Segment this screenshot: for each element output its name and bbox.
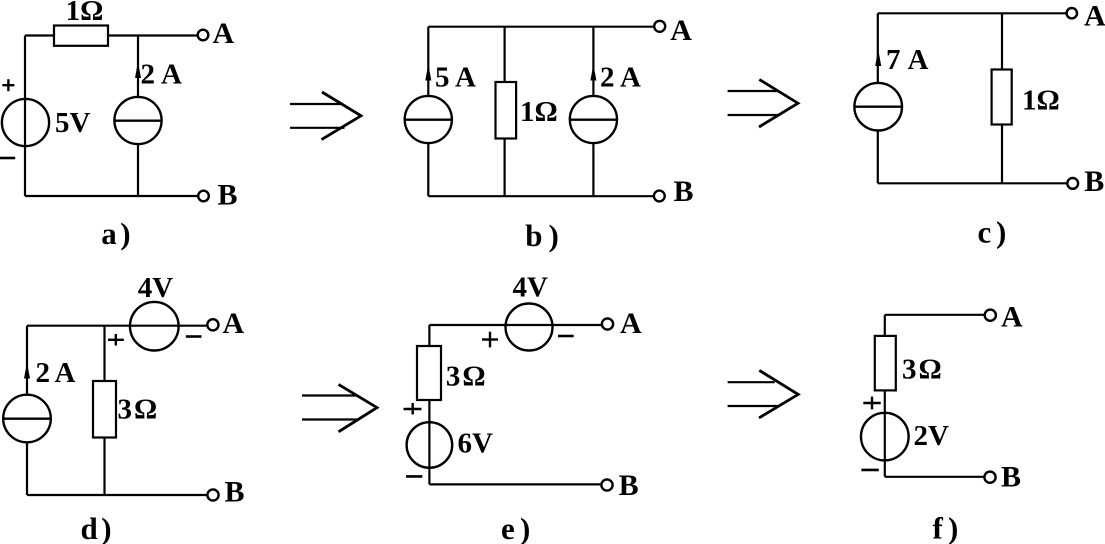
svg-text:B: B — [674, 175, 694, 208]
wire: circuit c left branch lower — [877, 130, 879, 183]
svg-text:d): d) — [81, 511, 112, 544]
voltage source 2V (f) circle — [861, 413, 909, 461]
wire: circuit a middle branch upper — [137, 36, 139, 98]
svg-text:1Ω: 1Ω — [1022, 84, 1060, 116]
svg-text:3Ω: 3Ω — [118, 394, 158, 426]
svg-text:B: B — [1084, 165, 1104, 198]
wire: circuit f bottom horizontal — [885, 476, 985, 478]
wire: circuit b top horizontal — [428, 26, 654, 28]
current source 2A (a) circle with bar — [114, 97, 161, 144]
svg-text:5A: 5A — [435, 61, 476, 93]
polarity − of 6V (e) — [406, 475, 422, 478]
terminal B (a) — [198, 191, 209, 202]
resistor 1Ω (c) body — [992, 70, 1012, 125]
current source 2A (b) circle with bar — [570, 96, 617, 143]
svg-text:B: B — [218, 178, 238, 211]
svg-text:A: A — [223, 307, 245, 340]
resistor 3Ω (d) body — [93, 381, 116, 438]
resistor 3Ω (f) body — [875, 336, 896, 391]
svg-text:A: A — [620, 307, 642, 340]
svg-text:A: A — [1001, 301, 1023, 334]
wire: circuit c top horizontal — [878, 12, 1067, 14]
wire: circuit e top horizontal — [429, 324, 602, 326]
svg-text:1Ω: 1Ω — [520, 96, 558, 128]
svg-text:3Ω: 3Ω — [446, 360, 486, 392]
current source 7A (c) circle with bar — [854, 83, 902, 131]
wire: circuit b left branch lower — [427, 143, 429, 196]
svg-text:B: B — [1001, 460, 1021, 493]
terminal A (c) — [1067, 8, 1077, 18]
svg-text:5V: 5V — [55, 107, 91, 139]
wire: circuit b bottom horizontal — [428, 195, 654, 197]
svg-text:7A: 7A — [886, 44, 929, 76]
svg-text:4V: 4V — [513, 272, 549, 304]
transform arrow between a and b — [290, 92, 361, 140]
terminal B (d) — [207, 489, 218, 500]
svg-text:1Ω: 1Ω — [66, 0, 104, 27]
polarity − of 5V (a) — [0, 157, 15, 160]
terminal A (a) — [198, 30, 209, 41]
current arrow of 7A (c) — [875, 49, 881, 66]
resistor 3Ω (e) body — [417, 346, 441, 400]
svg-text:a): a) — [101, 216, 130, 251]
wire: circuit e left branch vertical — [428, 325, 430, 484]
polarity + of 2V (f) — [863, 397, 880, 410]
svg-text:B: B — [225, 476, 245, 509]
svg-text:A: A — [670, 14, 692, 47]
transform arrow between b and c — [728, 80, 798, 128]
wire: circuit c bottom horizontal — [878, 182, 1068, 184]
wire: circuit d left branch lower — [26, 442, 28, 495]
polarity − of 2V (f) — [861, 469, 878, 472]
wire: circuit b right branch upper — [592, 27, 594, 97]
svg-text:b): b) — [525, 218, 559, 253]
polarity − of 4V (d) — [186, 335, 202, 338]
current source 5A (b) circle with bar — [405, 96, 452, 143]
transform arrow between e and f — [728, 370, 799, 418]
svg-text:2V: 2V — [914, 420, 950, 452]
terminal B (b) — [654, 191, 665, 202]
terminal A (e) — [602, 318, 613, 329]
voltage source 6V (e) circle — [407, 422, 453, 468]
polarity + of 4V (d) — [108, 334, 124, 346]
wire: circuit b middle branch — [504, 27, 506, 197]
terminal B (c) — [1067, 178, 1078, 189]
wire: circuit a top horizontal — [25, 34, 198, 36]
svg-text:f): f) — [933, 511, 959, 544]
svg-text:3Ω: 3Ω — [902, 354, 942, 386]
polarity + of 5V (a) — [2, 79, 14, 91]
svg-text:A: A — [1084, 0, 1105, 32]
polarity + of 6V (e) — [404, 403, 422, 415]
resistor 1Ω (b) body — [496, 82, 517, 139]
svg-text:c): c) — [978, 215, 1007, 250]
current arrow of 2A (b) — [590, 64, 596, 81]
terminal A (f) — [985, 310, 996, 321]
current arrow of 2A (a) — [135, 62, 141, 79]
current source 2A (d) circle with bar — [3, 395, 51, 443]
wire: circuit d middle branch — [103, 326, 105, 495]
wire: circuit e bottom horizontal — [429, 483, 601, 485]
svg-text:4V: 4V — [138, 272, 174, 304]
wire: circuit b left branch upper — [427, 27, 429, 97]
wire: circuit d left branch upper — [26, 326, 28, 395]
terminal B (f) — [984, 472, 995, 483]
voltage source 4V (d) circle — [130, 302, 179, 351]
svg-text:e): e) — [501, 511, 530, 544]
voltage source 5V (a) circle — [2, 99, 49, 146]
resistor 1Ω (a) body — [54, 26, 108, 46]
current arrow of 5A (b) — [425, 64, 431, 81]
terminal B (e) — [601, 479, 612, 490]
wire: circuit b right branch lower — [592, 143, 594, 196]
voltage source 4V (e) circle — [506, 304, 553, 351]
svg-text:6V: 6V — [458, 428, 494, 460]
terminal A (b) — [654, 21, 665, 32]
wire: circuit c left branch upper — [877, 13, 879, 83]
wire: circuit c right branch — [1001, 13, 1003, 183]
wire: circuit d bottom horizontal — [27, 494, 208, 496]
svg-text:2A: 2A — [600, 61, 641, 93]
wire: circuit f left branch vertical — [884, 315, 886, 477]
wire: circuit a left vertical — [24, 36, 26, 197]
wire: circuit f top horizontal — [885, 314, 985, 316]
svg-text:B: B — [619, 469, 639, 502]
svg-text:A: A — [213, 17, 235, 50]
wire: circuit d top horizontal — [27, 325, 207, 327]
terminal A (d) — [207, 319, 218, 330]
current arrow of 2A (d) — [24, 363, 30, 379]
polarity − of 4V (e) — [558, 335, 574, 338]
polarity + of 4V (e) — [482, 332, 498, 348]
svg-text:2A: 2A — [36, 357, 76, 389]
wire: circuit a middle branch lower — [137, 144, 139, 197]
svg-text:2A: 2A — [141, 59, 183, 91]
transform arrow between d and e — [302, 384, 377, 431]
wire: circuit a bottom horizontal — [25, 195, 198, 197]
